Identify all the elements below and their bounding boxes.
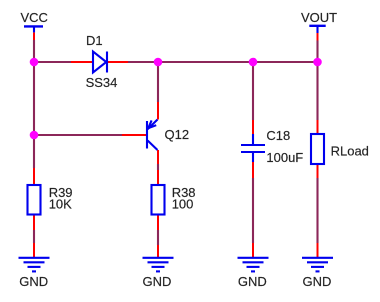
- svg-text:VOUT: VOUT: [301, 10, 337, 25]
- svg-text:100uF: 100uF: [266, 150, 303, 165]
- svg-text:GND: GND: [303, 274, 332, 289]
- svg-text:GND: GND: [238, 274, 267, 289]
- svg-text:10K: 10K: [49, 197, 72, 212]
- svg-text:Q12: Q12: [165, 127, 190, 142]
- svg-text:GND: GND: [19, 274, 48, 289]
- svg-text:100: 100: [172, 197, 194, 212]
- svg-text:D1: D1: [86, 33, 103, 48]
- svg-text:C18: C18: [266, 128, 290, 143]
- svg-text:GND: GND: [143, 274, 172, 289]
- svg-text:VCC: VCC: [21, 10, 48, 25]
- svg-text:SS34: SS34: [86, 75, 118, 90]
- svg-text:RLoad: RLoad: [331, 143, 369, 158]
